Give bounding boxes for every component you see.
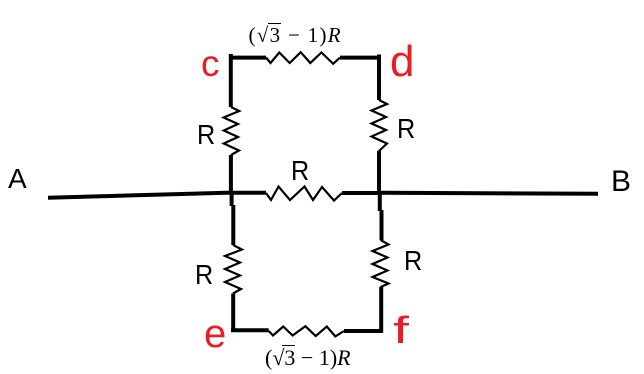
value label R (right top) <box>397 115 415 143</box>
value label R (right bottom) <box>404 247 422 275</box>
wire: left branch below crossing (jog) <box>230 192 234 206</box>
resistor R (left bottom) zigzag <box>225 245 242 294</box>
wire: left branch above crossing <box>229 155 233 193</box>
value label (sqrt3-1)R top <box>249 25 342 46</box>
node e label <box>204 314 226 354</box>
wire: right branch to node f <box>379 287 383 333</box>
wire: right branch above crossing <box>377 151 381 193</box>
resistor R (right top) zigzag <box>372 100 388 151</box>
wire: top right (resistor to d) <box>340 56 381 60</box>
node B label <box>611 167 631 197</box>
node d label <box>390 40 414 84</box>
resistor R (left top) zigzag <box>224 107 240 155</box>
node c label <box>201 45 220 82</box>
wire right branch to B <box>379 193 598 194</box>
value label R (left top) <box>197 121 215 149</box>
wire: right branch below crossing (jog) <box>378 192 382 211</box>
wire: bottom left (e to resistor) <box>231 328 269 332</box>
resistor R (middle) zigzag <box>266 187 342 201</box>
wire: top left (c to resistor) <box>229 56 266 60</box>
resistor R (right bottom) zigzag <box>373 240 389 287</box>
wire A to left branch <box>48 193 231 198</box>
wire: middle left stub <box>229 191 266 195</box>
node f label <box>393 312 409 350</box>
value label (sqrt3-1)R bottom <box>265 347 351 369</box>
wire: right branch to lower resistor <box>380 210 384 240</box>
resistor (sqrt3-1)R bottom zigzag <box>269 326 344 336</box>
node A label <box>8 165 27 193</box>
wire: bottom right (resistor to f) <box>344 329 383 333</box>
wire: middle right stub <box>342 191 381 195</box>
wire: right branch top segment at node d <box>377 55 381 101</box>
resistor (sqrt3-1)R top zigzag <box>266 52 340 64</box>
wire: left branch top segment at node c <box>229 54 233 107</box>
wire: left branch to node e <box>231 294 235 333</box>
value label R (left bottom) <box>195 261 213 289</box>
wire: left branch to lower resistor <box>231 205 235 245</box>
value label R (middle) <box>291 157 309 185</box>
